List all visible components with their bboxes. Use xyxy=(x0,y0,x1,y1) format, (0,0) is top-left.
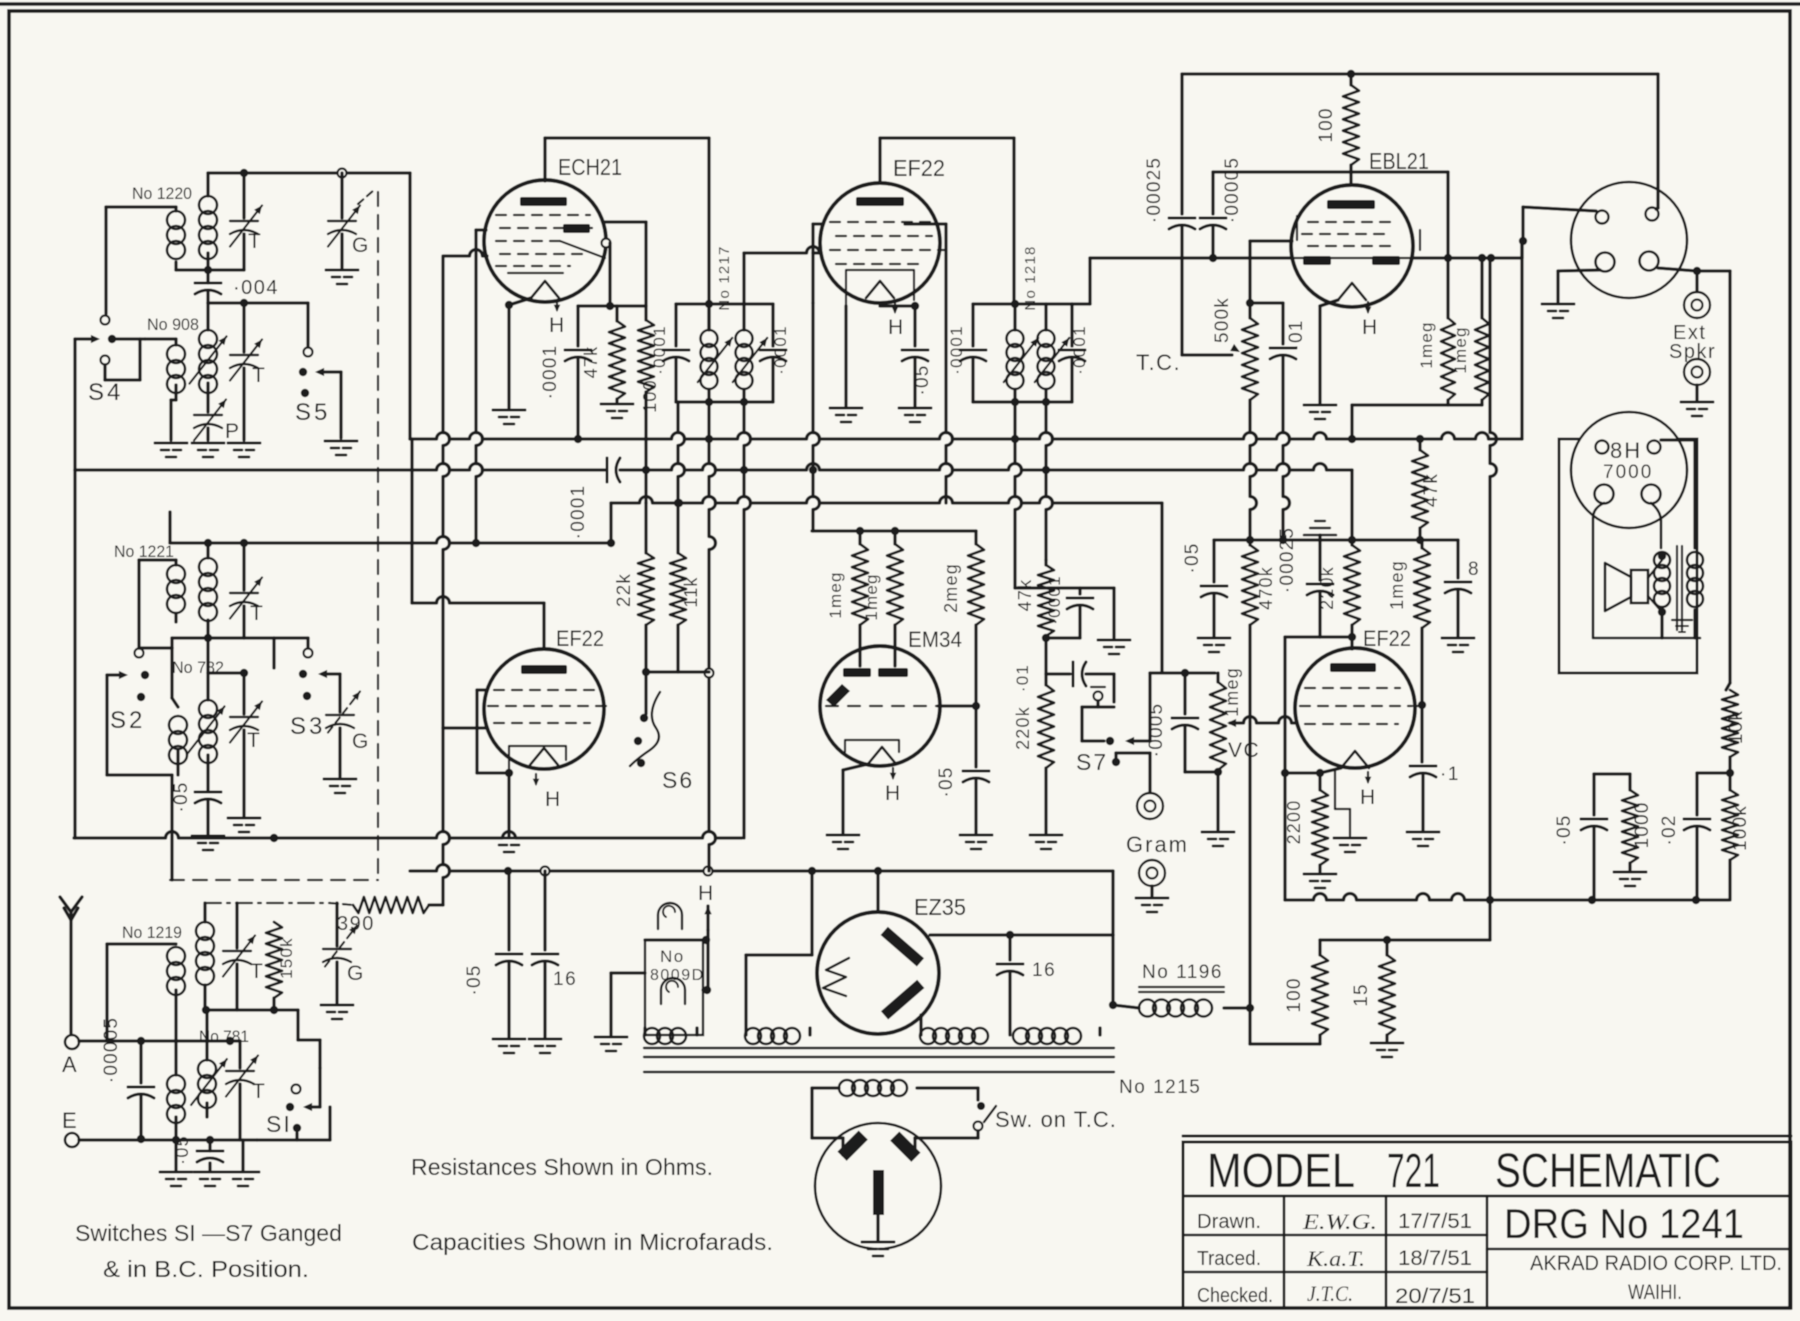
svg-text:EF22: EF22 xyxy=(893,155,945,181)
capacitor .004 xyxy=(195,282,221,285)
capacitor .00005 grid xyxy=(1211,172,1214,214)
svg-text:·00025: ·00025 xyxy=(1144,157,1165,223)
svg-text:·00005: ·00005 xyxy=(1222,157,1243,223)
capacitor .0005 xyxy=(1183,673,1186,714)
wire EF22 grid left side xyxy=(813,251,820,254)
wire S7 to gram xyxy=(1114,753,1117,762)
coil No1220 secondary xyxy=(199,196,217,214)
wire vertical x=946 EF22 plate to ift1218 xyxy=(946,224,953,503)
capacitor .05 left xyxy=(1212,540,1215,582)
tube EF22 output xyxy=(1295,648,1415,768)
terminal A xyxy=(65,1035,79,1049)
tube EF22 IF amplifier xyxy=(820,183,940,303)
capacitor .00025 coupling xyxy=(1169,217,1195,220)
svg-text:·0001: ·0001 xyxy=(540,345,561,400)
svg-text:16: 16 xyxy=(553,969,577,990)
svg-text:G: G xyxy=(347,962,365,985)
tube EBL21 xyxy=(1291,185,1413,307)
svg-text:47k: 47k xyxy=(581,346,601,379)
cathode EF22 output xyxy=(1341,751,1369,768)
coil No908 secondary variable xyxy=(199,330,217,348)
ground core xyxy=(1672,619,1692,621)
wire bus y=838 ground rail xyxy=(74,832,742,839)
resistor 220k detector xyxy=(1044,638,1047,685)
svg-text:2200: 2200 xyxy=(1284,800,1304,845)
svg-text:EF22: EF22 xyxy=(556,626,604,651)
wire S3 top from coil xyxy=(274,636,308,639)
title block frame xyxy=(1183,1135,1791,1138)
coil No781 upper xyxy=(196,922,214,940)
svg-text:No 1221: No 1221 xyxy=(114,542,174,561)
svg-text:500k: 500k xyxy=(1212,297,1233,343)
IF transformer No 1218 xyxy=(973,302,1072,305)
capacitor .05 cathode xyxy=(913,306,916,346)
svg-text:8: 8 xyxy=(1468,559,1480,580)
svg-text:47k: 47k xyxy=(1421,473,1442,507)
wire 470k bottom long xyxy=(1248,625,1251,1008)
capacitor .01 coupling to S7 xyxy=(1046,672,1070,675)
capacitor .0001 detector xyxy=(1067,597,1093,600)
svg-text:& in B.C. Position.: & in B.C. Position. xyxy=(103,1256,309,1282)
wire S1 bottom to E xyxy=(257,1138,330,1141)
wire EF22 plate right xyxy=(905,222,946,225)
svg-text:A: A xyxy=(62,1052,78,1077)
wire S2 block frame xyxy=(139,646,172,649)
wire cathode ground xyxy=(844,306,847,406)
capacitor .1 xyxy=(1420,705,1423,762)
svg-text:S6: S6 xyxy=(662,767,694,793)
wire A to coil xyxy=(79,1039,230,1042)
capacitor .0001 right No 1218 xyxy=(1070,304,1073,346)
svg-text:2meg: 2meg xyxy=(941,563,961,613)
ground under G xyxy=(326,269,358,272)
EM34 internal xyxy=(843,668,871,677)
svg-text:721: 721 xyxy=(1387,1145,1440,1198)
svg-text:390: 390 xyxy=(337,913,375,935)
resistor 1meg output xyxy=(1420,540,1423,548)
grounds under E line xyxy=(174,1140,177,1170)
power plug xyxy=(815,1123,941,1249)
svg-text:8H: 8H xyxy=(1610,438,1642,463)
svg-text:470k: 470k xyxy=(1256,566,1276,610)
svg-text:No 1217: No 1217 xyxy=(716,245,733,310)
svg-text:1meg: 1meg xyxy=(1417,321,1436,368)
capacitor .02 xyxy=(1697,771,1730,774)
svg-text:7000: 7000 xyxy=(1603,462,1653,483)
wire screen top xyxy=(605,220,646,223)
EZ35 filament xyxy=(823,958,849,996)
wire osc coil joins xyxy=(174,207,177,211)
heater arrow EF22 xyxy=(894,302,896,312)
EF22 internal xyxy=(856,197,904,206)
svg-text:No 1219: No 1219 xyxy=(122,923,182,942)
svg-text:·0001: ·0001 xyxy=(1045,575,1064,624)
wire EM34 supply rail xyxy=(812,529,976,532)
trimmer T padder xyxy=(242,303,245,352)
trimmer T band2 b xyxy=(242,673,245,714)
svg-text:·0001: ·0001 xyxy=(1070,325,1089,374)
svg-text:Switches SI —S7 Ganged: Switches SI —S7 Ganged xyxy=(75,1220,342,1246)
dash-dot line band3 xyxy=(205,902,330,904)
wire EM34 cathode ground xyxy=(843,764,868,770)
jack Gram top xyxy=(1137,793,1163,819)
resistor 220k output grid xyxy=(1350,540,1353,545)
resistor 100k xyxy=(1722,790,1738,860)
resistor 1meg EM34 b xyxy=(893,531,896,544)
resistor 11k xyxy=(676,505,679,553)
wire EBL21 grid cap top xyxy=(1213,170,1448,173)
svg-text:K.a.T.: K.a.T. xyxy=(1306,1246,1365,1271)
trimmer T band3 a xyxy=(235,903,238,948)
trimmer G band3 xyxy=(335,903,338,946)
coil secondary No 1218 xyxy=(1044,304,1047,330)
wire bus1 drop xyxy=(1350,470,1353,540)
wire 500k bottom xyxy=(1250,400,1257,540)
coil No782 lower secondary xyxy=(169,716,187,734)
heater EF22 output xyxy=(1367,772,1369,782)
speaker frame wire xyxy=(1593,503,1700,638)
wire EBL21 top B+ rail xyxy=(1182,72,1658,75)
svg-text:·0001: ·0001 xyxy=(568,485,589,540)
coil No1221 secondary xyxy=(199,558,217,576)
svg-text:SI: SI xyxy=(266,1111,292,1137)
wire screen left xyxy=(443,726,486,729)
resistor 10k xyxy=(1726,683,1730,690)
svg-text:No 1196: No 1196 xyxy=(1142,962,1223,983)
ground under S5 xyxy=(325,440,357,443)
jack Ext Spkr bottom xyxy=(1684,359,1710,385)
capacitor 8 electrolytic xyxy=(1456,540,1459,578)
svg-text:H: H xyxy=(888,316,905,339)
svg-text:·01: ·01 xyxy=(1013,664,1032,692)
svg-text:Gram: Gram xyxy=(1126,832,1189,857)
wire coil frame to gang line xyxy=(170,775,173,880)
wire to S3 xyxy=(244,636,274,639)
dial lamps No 8009D xyxy=(611,971,645,974)
svg-text:Resistances Shown in Ohm: Resistances Shown in Ohms. xyxy=(411,1154,713,1180)
wire VC wiper to grid xyxy=(1230,717,1295,724)
potentiometer VC 1meg xyxy=(1216,673,1219,682)
svg-text:·05: ·05 xyxy=(171,781,192,812)
resistor 1meg EM34 a xyxy=(858,531,861,544)
svg-text:T: T xyxy=(252,364,266,387)
wire vertical x=678 ift cap to bus2 xyxy=(678,402,685,503)
wire E line xyxy=(79,1138,257,1141)
svg-text:20/7/51: 20/7/51 xyxy=(1395,1285,1475,1308)
wire bottom bus y=898 xyxy=(1285,894,1729,900)
svg-text:E: E xyxy=(62,1108,78,1133)
winding heater xyxy=(745,1028,761,1044)
EBL21 internal xyxy=(1327,200,1375,209)
resistor 22k xyxy=(644,503,647,553)
resistor 47k osc xyxy=(615,306,618,321)
svg-text:1000: 1000 xyxy=(1632,801,1653,848)
svg-text:S3: S3 xyxy=(290,713,325,740)
capacitor .0001 left No 1217 xyxy=(674,304,677,346)
wire EM34 grid right xyxy=(938,704,976,707)
speaker plug circle xyxy=(1571,182,1687,298)
speaker box xyxy=(1559,439,1697,673)
wire bus y=543 xyxy=(170,537,611,543)
gang condenser dashed line xyxy=(377,192,379,880)
svg-text:S2: S2 xyxy=(110,707,145,734)
coil secondary No 1217 xyxy=(742,304,745,330)
wire grid line to EF22 second y=603 xyxy=(412,597,544,604)
wire 1meg bottoms xyxy=(1446,400,1449,405)
wire vertical x=412 bus0 to grid line xyxy=(410,439,413,603)
potentiometer 500k T.C. xyxy=(1248,303,1251,318)
wire osc top xyxy=(206,173,209,196)
svg-text:Checked.: Checked. xyxy=(1197,1285,1273,1307)
wire x=1490 long vertical xyxy=(1490,258,1497,900)
svg-text:15: 15 xyxy=(1351,983,1372,1007)
svg-text:47k: 47k xyxy=(1015,579,1035,612)
svg-text:·05: ·05 xyxy=(172,1135,192,1165)
svg-text:16: 16 xyxy=(1032,960,1056,981)
tube EM34 xyxy=(820,646,940,766)
svg-text:100k: 100k xyxy=(1730,805,1751,851)
wire vertical x=443 osc line xyxy=(443,257,450,905)
svg-text:AKRAD RADIO CORP. LTD.: AKRAD RADIO CORP. LTD. xyxy=(1530,1252,1782,1275)
svg-text:H: H xyxy=(698,882,715,905)
wire 1490 to 940 link xyxy=(1488,900,1491,940)
power transformer windings xyxy=(644,1047,1114,1049)
svg-text:·05: ·05 xyxy=(1182,542,1203,573)
svg-text:No 908: No 908 xyxy=(147,315,199,334)
trimmer G band2 xyxy=(338,674,341,712)
svg-text:J.T.C.: J.T.C. xyxy=(1307,1281,1353,1306)
wire vertical x=709 ECH21 plate feed xyxy=(707,138,710,330)
svg-text:T: T xyxy=(248,230,262,253)
capacitor .00025 output grid xyxy=(1307,583,1333,586)
wire grid box left xyxy=(477,688,486,691)
switch S3 xyxy=(304,649,313,658)
coil No1220 oscillator primary xyxy=(167,211,185,229)
switch S1 xyxy=(296,1010,299,1040)
ground ECH21 cathode xyxy=(493,409,525,412)
wire vertical x=744 ift1217 secondary to rail xyxy=(744,402,751,838)
cathode ECH21 xyxy=(531,281,559,298)
wire vertical left x=1182 xyxy=(1180,74,1183,214)
svg-text:·01: ·01 xyxy=(1286,319,1307,350)
svg-text:G: G xyxy=(352,234,370,257)
wire second grid y=241 xyxy=(1250,239,1292,242)
wire screen node xyxy=(602,239,611,248)
svg-text:WAIHI.: WAIHI. xyxy=(1628,1281,1682,1304)
switch S6 xyxy=(644,672,647,714)
capacitor .0001 right No 1217 xyxy=(771,304,774,346)
svg-text:Capacities Shown in Mic: Capacities Shown in Microfarads. xyxy=(412,1229,773,1255)
switch Sw on T.C. xyxy=(977,1102,985,1110)
wire No1221 top left xyxy=(174,560,177,565)
svg-text:22k: 22k xyxy=(614,573,635,607)
svg-text:10k: 10k xyxy=(1726,710,1747,744)
svg-text:S7: S7 xyxy=(1076,749,1108,775)
wire bus y=503 xyxy=(611,497,1162,503)
wire band2 coil bottom xyxy=(174,614,177,622)
trimmer T oscillator xyxy=(242,173,245,218)
svg-text:Sw. on T.C.: Sw. on T.C. xyxy=(995,1107,1117,1132)
svg-text:·05: ·05 xyxy=(464,964,485,995)
mains primary winding xyxy=(839,1080,855,1096)
heater EBL21 xyxy=(1367,302,1369,312)
svg-text:H: H xyxy=(1362,316,1379,339)
tube EF22 second xyxy=(484,649,604,769)
capacitor .05 tone xyxy=(1592,774,1595,815)
svg-text:No 1215: No 1215 xyxy=(1119,1077,1201,1098)
8H field coil circle xyxy=(1571,412,1687,528)
resistor 100 hum xyxy=(1318,940,1321,955)
trimmer T band2 a xyxy=(242,543,245,590)
resistor 390 xyxy=(353,897,429,913)
svg-text:·00025: ·00025 xyxy=(1277,527,1298,593)
svg-text:·05: ·05 xyxy=(936,766,957,797)
wire grid line through tube xyxy=(1213,256,1291,259)
svg-text:17/7/51: 17/7/51 xyxy=(1398,1210,1472,1233)
speaker cone xyxy=(1605,563,1631,611)
svg-text:H: H xyxy=(545,788,562,811)
wire ECH21 grid left xyxy=(443,250,487,256)
wire grid internal to 1meg xyxy=(1415,705,1422,707)
wire cathode ground xyxy=(507,773,510,836)
trimmer T band3 b xyxy=(238,1041,241,1068)
svg-text:150k: 150k xyxy=(277,937,296,979)
EF22 output internal xyxy=(1330,663,1376,672)
switch S2 xyxy=(135,649,144,658)
capacitor .0001 osc grid xyxy=(576,306,579,346)
coil No908 padder primary xyxy=(167,345,185,363)
svg-text:·1: ·1 xyxy=(1440,764,1460,785)
output transformer core xyxy=(1676,546,1678,630)
coil primary No 1217 xyxy=(707,304,710,330)
coil primary No 1218 xyxy=(1013,304,1016,330)
svg-text:ECH21: ECH21 xyxy=(558,154,622,180)
trimmer P padder xyxy=(194,414,222,416)
wire ift1217 secondary to EF22 grid xyxy=(742,253,745,304)
svg-text:No 1218: No 1218 xyxy=(1022,245,1039,310)
heater H ECH21 xyxy=(556,300,558,310)
wire plug top-left pin xyxy=(1523,207,1596,211)
cathode EF22 xyxy=(866,281,894,298)
svg-text:·004: ·004 xyxy=(233,277,279,299)
svg-text:T: T xyxy=(250,602,264,625)
svg-text:·0001: ·0001 xyxy=(771,325,790,374)
svg-text:·0001: ·0001 xyxy=(947,325,966,374)
EF22 second internal xyxy=(521,665,567,674)
wire top rail to speaker plug xyxy=(1656,74,1659,208)
terminal E xyxy=(65,1133,79,1147)
wire ift1218 secondary to EBL21 grid xyxy=(1072,302,1090,305)
svg-text:·00005: ·00005 xyxy=(101,1017,122,1083)
resistor 150k xyxy=(266,922,282,998)
resistor 2200 cathode xyxy=(1318,773,1321,790)
svg-text:1meg: 1meg xyxy=(1387,560,1407,610)
capacitor .01 EBL21 xyxy=(1250,301,1283,304)
output transformer secondary coil xyxy=(1687,552,1703,568)
heater EF22 second xyxy=(535,774,537,784)
svg-text:VC: VC xyxy=(1228,739,1260,762)
svg-text:DRG No 1241: DRG No 1241 xyxy=(1504,1200,1744,1247)
svg-text:E.W.G.: E.W.G. xyxy=(1302,1209,1377,1234)
svg-text:T: T xyxy=(252,1080,266,1103)
svg-text:G: G xyxy=(352,730,370,753)
wire vertical x=813 EF22 screen feed xyxy=(813,303,820,531)
wire plug bottom-right to Ext Spkr xyxy=(1658,268,1697,271)
wire rail y=540 xyxy=(1214,538,1458,541)
resistor 1000 tone xyxy=(1628,774,1631,790)
wire join 22k 11k xyxy=(646,670,709,673)
resistor 470k xyxy=(1248,540,1251,545)
svg-text:S5: S5 xyxy=(295,399,330,426)
wire vertical x=1162 bus to S7 xyxy=(1160,503,1163,672)
ground 47k xyxy=(615,399,618,402)
wire EBL21 cathode ground xyxy=(1320,300,1338,306)
wire vertical x=1046 ift1218 secondary to 47k xyxy=(1046,402,1053,560)
svg-text:100: 100 xyxy=(640,379,660,413)
svg-text:No 1220: No 1220 xyxy=(132,184,192,203)
wire left feed vertical x=75 xyxy=(73,339,76,470)
wire heater rail y=871 xyxy=(410,865,1113,872)
svg-text:H: H xyxy=(549,314,566,337)
svg-text:T.C.: T.C. xyxy=(1136,350,1181,375)
svg-text:H: H xyxy=(885,782,902,805)
svg-text:1meg: 1meg xyxy=(862,573,881,620)
svg-text:·02: ·02 xyxy=(1659,814,1680,845)
transformer label No 1215 xyxy=(644,1071,1114,1073)
wire cathode down xyxy=(1320,768,1341,773)
wire bus y=470 AVC xyxy=(75,464,605,471)
svg-text:EF22: EF22 xyxy=(1363,626,1411,651)
svg-text:·0005: ·0005 xyxy=(1146,703,1167,758)
wire vertical x=476 osc line 2 xyxy=(476,228,486,231)
resistor 47k output feed xyxy=(1418,439,1421,450)
svg-text:EM34: EM34 xyxy=(908,627,962,652)
cathode EF22 second xyxy=(530,748,558,765)
svg-text:220k: 220k xyxy=(1013,706,1033,750)
svg-text:1meg: 1meg xyxy=(826,571,845,618)
switch S4 xyxy=(101,316,110,325)
resistor 100 EBL21 screen xyxy=(1343,85,1359,165)
capacitor .05 heater xyxy=(507,871,510,950)
heater EM34 xyxy=(892,768,894,778)
wire EZ35 cathode to 16 xyxy=(930,933,1113,936)
tube ECH21 xyxy=(484,180,606,302)
output transformer primary coil xyxy=(1651,503,1661,548)
ground power plug xyxy=(876,1215,879,1240)
capacitor 16 heater xyxy=(543,871,546,950)
wire No781 right link xyxy=(230,1039,240,1042)
svg-text:220k: 220k xyxy=(1317,566,1337,610)
svg-text:Drawn.: Drawn. xyxy=(1197,1211,1261,1233)
svg-text:EBL21: EBL21 xyxy=(1369,148,1429,174)
wire ECH21 top feed xyxy=(545,136,709,139)
wire EZ35 plate top xyxy=(876,871,879,912)
winding HV 2 xyxy=(1013,1028,1029,1044)
wire plug bottom-left to ground xyxy=(1558,270,1600,271)
resistor 15 xyxy=(1385,940,1388,955)
trimmer G oscillator xyxy=(340,173,343,218)
svg-text:100: 100 xyxy=(1284,977,1305,1012)
svg-text:1meg: 1meg xyxy=(1222,667,1242,717)
wire B+ bus top (y=439) xyxy=(410,433,1522,439)
tube EZ35 xyxy=(817,912,939,1034)
svg-text:8009D: 8009D xyxy=(650,967,705,984)
resistor 1meg b xyxy=(1480,258,1483,318)
resistor 100 screen xyxy=(644,222,647,320)
svg-text:18/7/51: 18/7/51 xyxy=(1398,1247,1472,1270)
resistor 1meg a xyxy=(1446,258,1449,318)
svg-text:100: 100 xyxy=(1316,107,1337,142)
